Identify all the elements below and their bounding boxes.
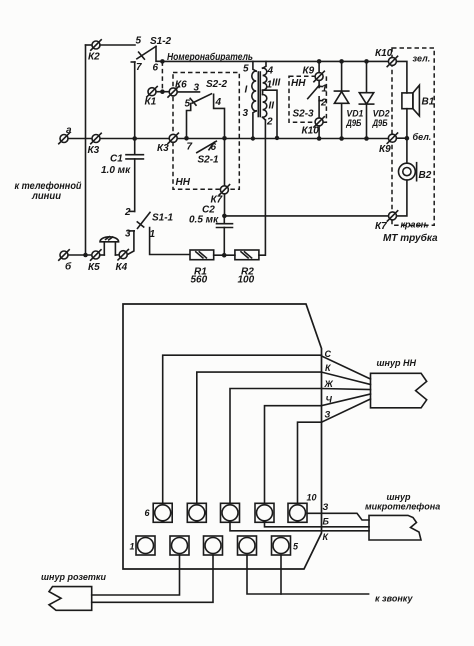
svg-text:шнур НН: шнур НН [377, 358, 417, 368]
node: VD1 top [339, 59, 344, 64]
capacitor C1 [101, 139, 143, 212]
terminal 3 [204, 536, 223, 555]
terminal 2 [170, 536, 189, 555]
terminal K10 (handset, зел.) [375, 48, 430, 67]
svg-text:Ч: Ч [326, 395, 333, 405]
wire: winding II to R2 [259, 120, 266, 255]
switch S2-3 [293, 61, 328, 119]
wire: B1 to K9 node [406, 109, 408, 139]
wire К from terminal 7 [197, 372, 322, 503]
svg-text:а: а [66, 125, 72, 136]
svg-text:Б: Б [323, 517, 330, 527]
terminal a [59, 125, 72, 144]
svg-text:6: 6 [211, 142, 217, 153]
transformer T1 [243, 61, 281, 138]
svg-text:Ж: Ж [324, 379, 334, 389]
svg-text:100: 100 [238, 275, 255, 286]
svg-text:I: I [245, 85, 248, 96]
terminal K9 (handset, бел.) [379, 132, 431, 155]
svg-text:бел.: бел. [413, 132, 432, 142]
wire: terminal 5 to bell line [280, 555, 282, 594]
wire: terminal 4 to bell line [247, 555, 369, 594]
wire: terminal 3 to socket cord [92, 555, 213, 602]
socket cord шнур розетки [41, 572, 106, 610]
switch S1-1 [124, 207, 189, 255]
wire Б handset cord from terminal 9 [265, 522, 370, 527]
svg-text:В2: В2 [419, 170, 432, 181]
svg-text:II: II [269, 101, 275, 112]
switch S1-2 [131, 36, 171, 74]
wire Ч from terminal 9 [265, 406, 322, 504]
winding I [253, 61, 256, 71]
node: winding tap 1 on rail [275, 136, 279, 140]
svg-text:З: З [323, 502, 329, 512]
dial cord шнур НН [371, 358, 427, 408]
wire: K10 to rail [318, 126, 320, 139]
svg-text:S2-3: S2-3 [293, 109, 315, 120]
wire: R1 to R2 [214, 254, 235, 256]
svg-text:С1: С1 [110, 154, 123, 165]
dial contact S2-3 dashed box [289, 76, 326, 122]
svg-text:НН: НН [291, 78, 306, 89]
svg-text:к звонку: к звонку [375, 594, 413, 604]
svg-text:VD2: VD2 [373, 109, 390, 119]
svg-text:S1-2: S1-2 [150, 36, 172, 47]
svg-text:В1: В1 [422, 97, 435, 108]
node: B1/B2 junction [405, 136, 410, 141]
terminal K7 (handset, красн.) [375, 211, 429, 232]
wire fan К to cord [322, 372, 371, 384]
svg-text:красн.: красн. [401, 220, 429, 230]
svg-text:0.5 мк: 0.5 мк [189, 215, 219, 226]
svg-text:МТ трубка: МТ трубка [383, 232, 438, 244]
svg-text:б: б [65, 261, 72, 273]
svg-text:2: 2 [320, 98, 327, 109]
svg-text:7: 7 [187, 142, 193, 153]
node: VD2 bottom [364, 136, 369, 141]
terminal 8 [221, 503, 240, 522]
svg-text:К2: К2 [88, 52, 100, 63]
svg-text:3: 3 [243, 108, 249, 119]
svg-text:5: 5 [243, 64, 249, 75]
svg-text:5: 5 [185, 99, 191, 110]
svg-text:К7: К7 [375, 221, 387, 232]
svg-text:S2-1: S2-1 [198, 155, 220, 166]
svg-text:S1-1: S1-1 [152, 213, 174, 224]
handset cord шнур микротелефона [365, 492, 440, 540]
diode VD2 [359, 61, 389, 138]
svg-text:III: III [272, 78, 281, 89]
svg-text:шнур розетки: шнур розетки [41, 572, 106, 582]
terminal K7 [211, 185, 230, 206]
main rail a: telephone line to K9 [68, 138, 388, 140]
node: C2 bottom junction [222, 253, 227, 258]
svg-text:З: З [325, 410, 331, 420]
svg-text:К10: К10 [302, 126, 320, 137]
wire: K9 stub [396, 137, 407, 139]
terminal K5 [88, 250, 101, 273]
svg-text:10: 10 [307, 493, 317, 503]
svg-text:линии: линии [31, 191, 61, 202]
switch S2-1 [187, 141, 220, 165]
svg-text:Д9Б: Д9Б [346, 118, 362, 128]
wire З handset cord from terminal 10 [307, 513, 369, 520]
bell (ringer) [100, 237, 120, 255]
terminal K3 [88, 133, 102, 156]
dial unit НН dashed box [173, 73, 239, 190]
winding III [263, 61, 266, 68]
terminal K1 [145, 87, 158, 108]
node: S2-3 bottom on rail [317, 136, 322, 141]
svg-text:С: С [325, 349, 332, 359]
svg-text:560: 560 [191, 275, 208, 286]
svg-text:3: 3 [194, 83, 200, 94]
svg-text:зел.: зел. [413, 54, 431, 64]
node: VD1 bottom [339, 136, 344, 141]
node: winding I bottom on rail [251, 136, 255, 140]
node: K7/C2 junction [222, 214, 227, 219]
wire: down to B2 [406, 138, 408, 163]
node: VD2 top [364, 59, 369, 64]
svg-text:К6: К6 [175, 80, 187, 91]
terminal K10 (dial S2-3) [302, 117, 325, 137]
svg-text:VD1: VD1 [346, 109, 363, 119]
wire: K2 to S1-2 contact 5 [100, 44, 135, 46]
svg-text:1: 1 [130, 542, 135, 552]
wire fan Ж to cord [322, 389, 371, 390]
switch S2-2 [185, 79, 228, 138]
terminal 10 [288, 493, 317, 523]
node: S2-3 top on rail [317, 59, 322, 64]
svg-text:Д9Б: Д9Б [372, 118, 388, 128]
wire С from terminal 6 [163, 355, 322, 503]
terminal 1 [130, 536, 156, 555]
node: K1/K6 junction [160, 89, 165, 94]
svg-text:НН: НН [176, 177, 191, 188]
wire: vertical from K2 down to line b [85, 45, 87, 255]
wire: K1 to K6 [156, 91, 169, 93]
capacitor C2 [189, 205, 233, 256]
svg-text:К5: К5 [88, 262, 100, 273]
terminal K4 [116, 250, 129, 274]
svg-text:5: 5 [293, 542, 299, 552]
node: S2-2/4 on rail [222, 136, 227, 141]
svg-text:К1: К1 [145, 97, 157, 108]
svg-text:К3: К3 [157, 143, 169, 154]
svg-text:К4: К4 [116, 262, 128, 273]
node: S2-2/5 on rail [184, 136, 189, 141]
terminal 6 [145, 503, 173, 522]
wire: contact 7 down to line a [134, 62, 136, 139]
svg-text:7: 7 [136, 62, 142, 73]
svg-text:S2-2: S2-2 [206, 79, 228, 90]
wire fan Ч to cord [322, 394, 371, 406]
wire: б to K5 [68, 254, 92, 256]
terminal 4 [238, 536, 257, 555]
svg-text:4: 4 [215, 97, 222, 108]
node: C1 junction on rail a [132, 136, 137, 141]
wire: K7 line to handset [224, 215, 388, 217]
terminal 7 [187, 503, 206, 522]
node: K2 branch on line b [83, 253, 88, 258]
node: junction S1-2/6 on top rail [160, 59, 165, 64]
baseplate outline [123, 304, 322, 569]
wire: down to K7 [224, 138, 226, 216]
terminal 5 [272, 536, 300, 555]
svg-text:микротелефона: микротелефона [365, 502, 440, 512]
wire fan З to cord [322, 399, 371, 422]
svg-text:К: К [325, 363, 332, 373]
core [257, 72, 259, 117]
terminal K2 [86, 40, 102, 63]
svg-text:К9: К9 [303, 66, 315, 77]
svg-text:К9: К9 [379, 144, 391, 155]
svg-text:5: 5 [136, 36, 142, 47]
svg-text:2: 2 [124, 207, 131, 218]
svg-text:К10: К10 [375, 48, 393, 59]
svg-text:К3: К3 [88, 145, 100, 156]
wire Ж from terminal 8 [230, 389, 322, 504]
svg-text:К: К [323, 532, 330, 542]
speaker B1 [402, 85, 435, 116]
svg-text:2: 2 [266, 117, 273, 128]
wire К handset cord from terminal 8 [230, 522, 369, 531]
terminal 9 [255, 503, 274, 522]
wire: terminal 2 to socket cord [92, 555, 180, 595]
svg-text:4: 4 [267, 66, 274, 77]
diode VD1 [334, 61, 363, 138]
resistor R1 [190, 250, 214, 286]
microphone B2 [399, 163, 432, 181]
svg-text:1: 1 [322, 84, 328, 95]
wire: dashed link from rail down to K1/K6 node [161, 61, 163, 91]
wire: top rail to K10 [162, 60, 388, 62]
terminal K6 [168, 80, 187, 98]
handset МТ трубка dashed box [392, 48, 434, 225]
terminal K3 (dial) [157, 133, 178, 154]
svg-text:1.0 мк: 1.0 мк [101, 165, 131, 176]
resistor R2 [235, 250, 259, 286]
wire: K10 to B1 [396, 61, 407, 93]
svg-text:6: 6 [153, 63, 159, 74]
wire: K6 to S2-2 contact 3 [177, 91, 199, 93]
svg-text:6: 6 [145, 508, 151, 518]
terminal K9 (dial S2-3) [303, 66, 325, 82]
wire: B2 to K7 [397, 180, 407, 216]
svg-text:шнур: шнур [387, 492, 411, 502]
terminal б [59, 250, 72, 273]
wire З from terminal 10 [298, 422, 322, 503]
wire fan С to cord [322, 356, 371, 379]
winding II [262, 90, 264, 94]
